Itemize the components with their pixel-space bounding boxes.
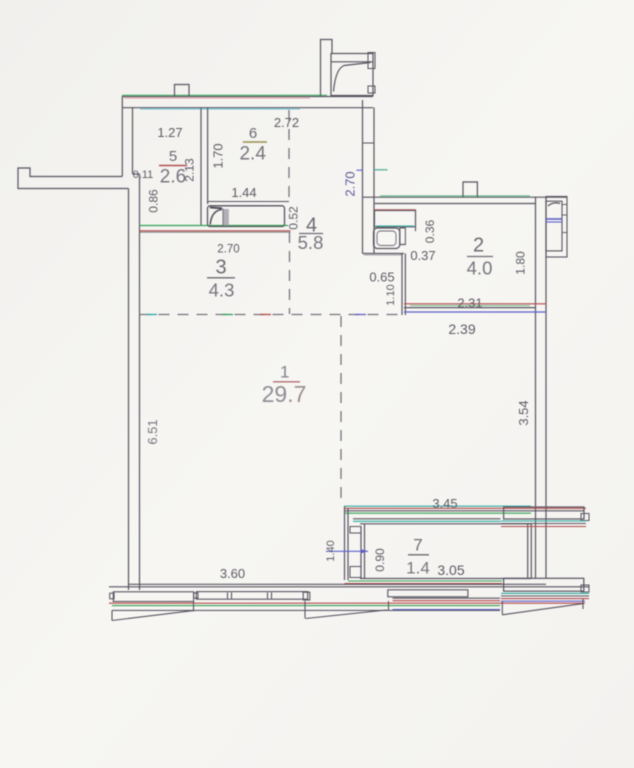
svg-text:1.70: 1.70 [211, 143, 226, 168]
wire room2 top wall [363, 196, 568, 204]
svg-text:2.72: 2.72 [274, 115, 299, 130]
wire room2 bottom wall [404, 304, 546, 312]
wire divider wall rooms 5-6 [201, 108, 208, 226]
wire long lower line [112, 609, 500, 611]
svg-text:5.8: 5.8 [298, 232, 324, 253]
svg-text:2: 2 [473, 235, 484, 257]
node entry door box right [546, 197, 567, 258]
svg-text:2.13: 2.13 [183, 158, 197, 182]
svg-text:3: 3 [215, 257, 226, 279]
svg-text:3.54: 3.54 [516, 400, 531, 425]
wire right top block [501, 507, 589, 527]
svg-text:3.60: 3.60 [220, 566, 245, 581]
node pilaster room2 top [463, 182, 477, 197]
wire center vertical wall [363, 100, 375, 254]
svg-text:1.10: 1.10 [385, 284, 397, 305]
svg-text:1.44: 1.44 [231, 185, 256, 200]
svg-text:2.70: 2.70 [217, 244, 239, 256]
svg-text:29.7: 29.7 [262, 381, 307, 407]
wire left wall lower [129, 174, 140, 590]
svg-text:2.31: 2.31 [457, 296, 482, 311]
wire bath alcove top [208, 201, 289, 203]
wire bottom band A left rect [110, 592, 198, 602]
wire tick 2.70 line [357, 169, 388, 171]
wire underline room4 [299, 233, 323, 235]
svg-text:2.39: 2.39 [448, 321, 475, 337]
svg-text:7: 7 [413, 536, 422, 555]
svg-text:0.52: 0.52 [287, 206, 301, 230]
wire underline room5 [159, 165, 187, 167]
wire room7 left edge [345, 506, 365, 580]
svg-text:1: 1 [280, 363, 289, 382]
wire top outer wall [122, 95, 373, 109]
svg-text:0.86: 0.86 [147, 189, 161, 213]
wire room7 bottom band [345, 579, 532, 584]
wire dashed vertical room6 boundary [288, 110, 291, 314]
node pilaster on top wall [175, 85, 190, 97]
wire left protrusion [18, 168, 129, 189]
wire right bottom block [501, 578, 589, 615]
wire dashed colored overlays [146, 314, 366, 316]
svg-text:6: 6 [249, 125, 257, 142]
wire left wall upper [122, 96, 139, 177]
wire room1 bottom wall [109, 584, 589, 587]
wire dimension arrow 1.40 [326, 549, 368, 553]
svg-text:4.0: 4.0 [467, 258, 493, 279]
node bathtub [208, 206, 285, 227]
svg-text:0.37: 0.37 [410, 248, 435, 263]
wire underline room7 [408, 554, 429, 556]
svg-text:1.80: 1.80 [514, 251, 528, 275]
svg-text:2.70: 2.70 [343, 171, 358, 196]
svg-text:0.36: 0.36 [423, 219, 437, 243]
svg-text:1.40: 1.40 [325, 540, 337, 561]
wire room2 right wall [536, 196, 547, 578]
svg-text:0.65: 0.65 [369, 270, 394, 285]
wire room7 top band [345, 506, 587, 524]
wire underline room1 [273, 381, 300, 383]
svg-text:1.27: 1.27 [157, 125, 182, 140]
wire underline room3 [207, 277, 235, 279]
svg-text:0.90: 0.90 [373, 548, 387, 572]
node toilet [374, 228, 406, 249]
wire underline room6 [243, 141, 267, 143]
wire fixture zone bottom [363, 254, 405, 256]
svg-text:3.45: 3.45 [432, 496, 457, 511]
svg-text:6.51: 6.51 [145, 419, 160, 444]
svg-text:2.4: 2.4 [239, 144, 266, 165]
wire dashed horizontal room1 top [140, 314, 405, 316]
node balcony window box top right [331, 53, 375, 96]
wire underline room2 [467, 256, 493, 258]
wire bottom band A middle rect [196, 592, 310, 600]
node washbasin [374, 210, 416, 231]
wire bottom band A right rect [388, 590, 468, 597]
wire room7 right inner edge [528, 524, 532, 578]
wire bath area bottom wall [140, 226, 291, 233]
wire middle wedge [305, 601, 389, 619]
svg-text:1.4: 1.4 [406, 559, 430, 578]
svg-text:0.11: 0.11 [133, 169, 154, 181]
wire balcony stem top right [321, 40, 333, 97]
wire wall stub 1.10 [402, 254, 405, 316]
svg-text:5: 5 [169, 148, 177, 165]
wire dashed vertical room1 right [340, 316, 342, 505]
wire left wedge [112, 601, 194, 621]
svg-text:3.05: 3.05 [437, 562, 464, 578]
svg-text:4.3: 4.3 [209, 280, 235, 301]
wire bottom band B lines [109, 598, 585, 609]
